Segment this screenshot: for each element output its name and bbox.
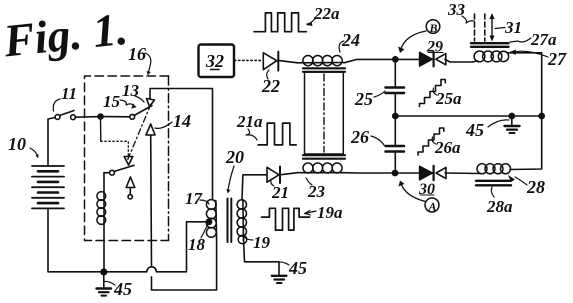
- wire secondary bottom to ground: [244, 240, 280, 276]
- armature stem to primary bottom loop wire: [152, 239, 217, 291]
- core center dash-dot: [323, 74, 325, 152]
- mechanical link dash-dot: [128, 104, 152, 160]
- wire secondary top to diode 21: [242, 175, 266, 200]
- label 20: [225, 147, 244, 167]
- svg-text:20: 20: [225, 147, 244, 167]
- label 25: [354, 89, 373, 109]
- label 45 middle: [288, 258, 307, 278]
- arrow A to node: [401, 184, 426, 202]
- label 23: [307, 182, 326, 201]
- svg-text:26a: 26a: [434, 138, 461, 157]
- wire to coil 27a: [445, 59, 472, 62]
- armature arrow 14: [146, 124, 155, 135]
- label 45 right: [465, 120, 484, 140]
- circle A: [425, 198, 439, 212]
- svg-text:22a: 22a: [313, 4, 340, 23]
- svg-text:28a: 28a: [486, 197, 513, 216]
- capacitor bank line: [394, 59, 396, 87]
- core bars 27a: [471, 42, 509, 44]
- dotted wire 32 to diode 22: [235, 59, 262, 61]
- wire hop over armature stem: [147, 267, 157, 272]
- svg-text:32: 32: [205, 51, 224, 71]
- label 21a: [236, 112, 263, 131]
- wire diode 21 to coil 23: [280, 173, 298, 175]
- waveform 19a: [262, 208, 310, 230]
- label 13: [122, 81, 140, 100]
- label 22a: [313, 4, 340, 23]
- contact 15 blade: [130, 114, 135, 119]
- box 32: [199, 45, 235, 78]
- svg-text:45: 45: [288, 258, 307, 278]
- svg-text:B: B: [429, 21, 438, 35]
- svg-text:Fig. 1.: Fig. 1.: [0, 3, 130, 67]
- svg-text:17: 17: [185, 189, 204, 208]
- wire battery bottom to rail: [48, 208, 101, 271]
- label 19: [253, 233, 271, 252]
- waveform 21a: [258, 123, 296, 145]
- svg-text:22: 22: [261, 76, 280, 96]
- tap node 18: [206, 219, 211, 224]
- capacitor 25: [386, 86, 405, 89]
- ground 45 left: [103, 274, 105, 288]
- svg-text:11: 11: [61, 84, 77, 103]
- adjuster arrow 31: [491, 17, 493, 39]
- node dot right rail: [539, 113, 544, 118]
- diode 29: [420, 53, 433, 67]
- contact blade 2: [110, 170, 115, 175]
- node dot mid: [393, 113, 398, 118]
- svg-text:24: 24: [341, 30, 360, 50]
- waveform 22a: [254, 13, 306, 32]
- capacitor 26: [386, 145, 405, 148]
- node dot ground rail: [509, 113, 514, 118]
- switch 11: [55, 115, 60, 120]
- label 17: [185, 189, 204, 208]
- svg-text:27a: 27a: [530, 30, 557, 49]
- label 29: [426, 39, 443, 56]
- wire tip 13 up and over to transformer: [150, 89, 213, 200]
- wire switch to node: [76, 116, 101, 119]
- dashed core legs 33: [474, 14, 476, 41]
- middle rail: [395, 115, 541, 117]
- transformer primary 17: [206, 200, 216, 239]
- ground 45 right: [511, 116, 513, 126]
- label 26: [350, 127, 369, 147]
- diode 30: [420, 166, 433, 180]
- title Fig. 1.: [0, 3, 130, 67]
- label 10: [8, 134, 26, 154]
- core bars top: [303, 67, 345, 69]
- label 45 left: [113, 279, 132, 299]
- battery 10: [32, 166, 64, 208]
- label 30: [418, 181, 435, 198]
- svg-text:18: 18: [188, 235, 206, 254]
- label 31: [504, 18, 522, 37]
- label 26a: [434, 138, 461, 157]
- core bars bottom: [303, 154, 345, 156]
- label 18: [188, 235, 206, 254]
- inductor 27a: [472, 51, 509, 62]
- svg-text:25: 25: [354, 89, 373, 109]
- inductor 28: [445, 164, 511, 174]
- wire coil 27a to right rail: [507, 53, 542, 115]
- dotted wire node to contact triangle: [100, 119, 102, 141]
- svg-text:45: 45: [465, 120, 484, 140]
- top rail to node B: [344, 59, 419, 62]
- label 24: [341, 30, 360, 50]
- label 28: [526, 177, 545, 197]
- label 15: [103, 92, 121, 111]
- wire coil 28 to right rail: [510, 117, 542, 170]
- staircase 25a: [420, 80, 446, 107]
- core rectangle: [305, 72, 344, 154]
- svg-text:16: 16: [128, 44, 146, 64]
- transformer secondary 19: [237, 200, 247, 244]
- wire battery to switch 11: [48, 118, 55, 167]
- svg-text:15: 15: [103, 92, 121, 111]
- svg-text:19: 19: [253, 233, 271, 252]
- label 19a: [317, 203, 343, 222]
- svg-text:14: 14: [173, 111, 191, 131]
- label 11: [61, 84, 77, 103]
- transformer core 20: [227, 199, 229, 243]
- svg-text:19a: 19a: [317, 203, 343, 222]
- contact triangle (down): [124, 157, 133, 166]
- arrow B to node: [401, 31, 427, 50]
- bottom rail: [101, 271, 147, 273]
- label 27: [547, 49, 567, 69]
- diode 21: [267, 167, 279, 182]
- label 16: [128, 44, 146, 64]
- node junction: [98, 114, 103, 119]
- svg-text:A: A: [428, 200, 437, 214]
- circle B: [426, 20, 440, 34]
- diode 29 left-pointing element: [436, 54, 446, 65]
- wire coil top to blade2 circle: [104, 172, 110, 174]
- lower contact arrow: [126, 177, 135, 188]
- label 25a: [435, 89, 462, 108]
- svg-text:27: 27: [547, 49, 567, 69]
- wire diode 22 to coil 24: [278, 60, 297, 62]
- svg-text:23: 23: [307, 182, 326, 201]
- label 14: [173, 111, 191, 131]
- contact 13 tip triangle: [147, 99, 155, 107]
- label 28a: [486, 197, 513, 216]
- ground 45 middle: [272, 275, 287, 277]
- staircase 26a: [418, 128, 444, 155]
- svg-text:21a: 21a: [236, 112, 263, 131]
- svg-text:31: 31: [504, 18, 522, 37]
- relay coil: [97, 173, 106, 272]
- node junction ground: [101, 269, 107, 275]
- core bars 28a: [476, 180, 511, 182]
- node dot A: [392, 170, 397, 175]
- svg-text:25a: 25a: [435, 89, 462, 108]
- label 27a: [530, 30, 557, 49]
- svg-text:26: 26: [350, 127, 369, 147]
- label 22: [261, 76, 280, 96]
- svg-text:10: 10: [8, 134, 26, 154]
- diode 30 left-pointing element: [436, 167, 446, 178]
- svg-text:45: 45: [113, 279, 132, 299]
- node dot top: [393, 57, 398, 62]
- svg-text:28: 28: [526, 177, 545, 197]
- diode 22: [263, 53, 277, 70]
- winding 23: [298, 163, 345, 173]
- label 33: [447, 0, 466, 19]
- dashed box 16: [85, 76, 169, 241]
- transformer 23/24 winding 24: [298, 56, 344, 66]
- label 21: [271, 183, 289, 202]
- bottom rail right: [344, 172, 419, 174]
- wire node to contact 15: [103, 116, 130, 118]
